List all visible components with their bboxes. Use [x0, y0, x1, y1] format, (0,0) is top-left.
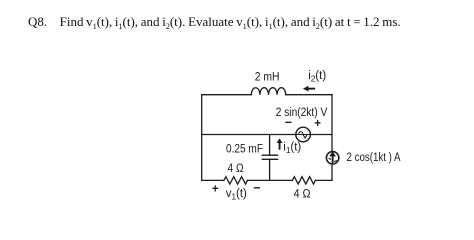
svg-text:2 mH: 2 mH — [255, 72, 280, 84]
wire bottom right segment — [315, 179, 332, 181]
current source I1 arrow — [328, 151, 337, 163]
wire capacitor branch upper — [269, 135, 271, 156]
capacitor C1 plates — [262, 155, 277, 159]
svg-text:4 Ω: 4 Ω — [294, 189, 311, 201]
voltage source U1 circle — [296, 127, 311, 142]
wire right vertical lower — [331, 164, 333, 180]
svg-text:+: + — [314, 118, 321, 130]
svg-text:+: + — [212, 183, 219, 195]
wire top-left segment — [202, 94, 252, 96]
wire capacitor branch lower — [269, 159, 271, 180]
wire bottom middle segment — [248, 179, 293, 181]
current arrow i1 pointing up — [277, 138, 283, 149]
resistor R2 4ohm zigzag right — [292, 177, 315, 184]
svg-text:i1(t): i1(t) — [283, 142, 301, 156]
wire bottom left segment — [202, 179, 224, 181]
wire middle horizontal left of source — [202, 134, 296, 136]
svg-text:0.25 mF: 0.25 mF — [226, 144, 263, 156]
title text — [28, 14, 401, 30]
resistor R1 4ohm zigzag left — [224, 177, 248, 184]
svg-text:4 Ω: 4 Ω — [228, 163, 244, 175]
svg-text:−: − — [285, 115, 292, 129]
svg-text:v1(t): v1(t) — [226, 188, 247, 201]
voltage source sine symbol — [297, 132, 310, 138]
wire left vertical — [201, 95, 203, 181]
svg-text:i2(t): i2(t) — [308, 70, 326, 84]
svg-text:−: − — [253, 181, 260, 195]
wire middle horizontal right of source — [311, 134, 333, 136]
wire top-right segment — [286, 94, 332, 96]
svg-text:2 cos(1kt ) A: 2 cos(1kt ) A — [347, 152, 401, 164]
wire right vertical upper — [331, 95, 333, 152]
inductor L1 2 mH — [251, 88, 285, 95]
current source I1 circle — [326, 152, 338, 164]
current arrow i2 pointing left — [303, 86, 315, 92]
